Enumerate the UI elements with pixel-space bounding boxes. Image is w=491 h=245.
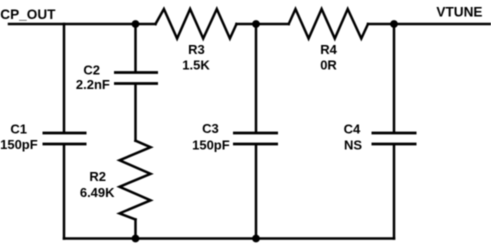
- svg-text:150pF: 150pF: [0, 137, 38, 152]
- svg-text:C1: C1: [10, 122, 27, 137]
- svg-text:150pF: 150pF: [192, 138, 230, 153]
- svg-text:1.5K: 1.5K: [182, 58, 210, 73]
- svg-text:VTUNE: VTUNE: [436, 5, 482, 20]
- svg-text:R3: R3: [188, 42, 205, 57]
- svg-text:6.49K: 6.49K: [80, 185, 115, 200]
- svg-text:0R: 0R: [320, 58, 337, 73]
- svg-text:CP_OUT: CP_OUT: [0, 7, 56, 22]
- svg-text:2.2nF: 2.2nF: [76, 77, 110, 92]
- svg-text:NS: NS: [344, 138, 362, 153]
- svg-text:C3: C3: [202, 121, 219, 136]
- svg-text:C4: C4: [344, 122, 361, 137]
- svg-text:R4: R4: [320, 42, 337, 57]
- svg-text:R2: R2: [89, 169, 106, 184]
- svg-text:C2: C2: [83, 63, 100, 78]
